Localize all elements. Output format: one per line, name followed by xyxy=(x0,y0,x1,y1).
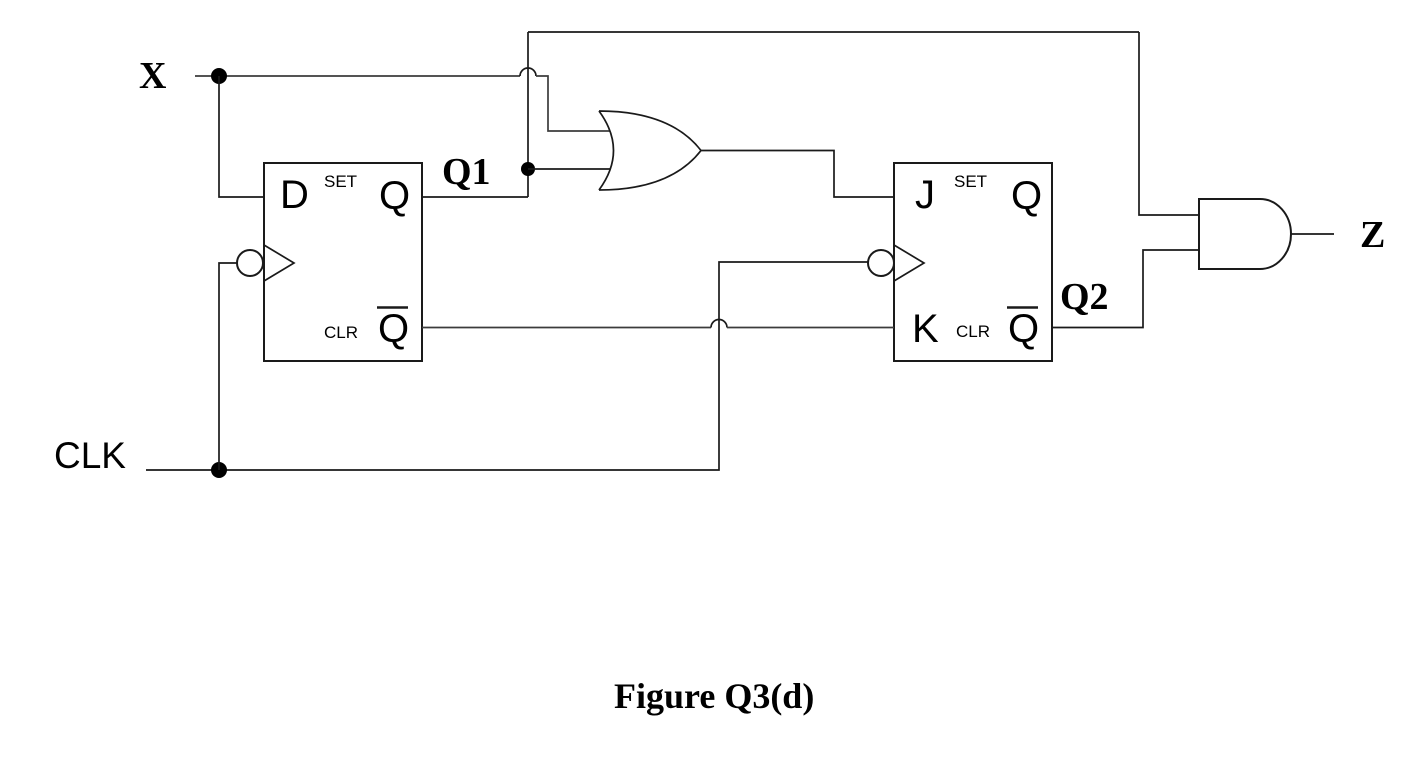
svg-text:Figure Q3(d): Figure Q3(d) xyxy=(614,676,814,716)
clock edge triangle (U1) xyxy=(264,245,294,281)
wire: Q1 to OR gate bottom input xyxy=(528,168,610,170)
svg-text:Q1: Q1 xyxy=(442,151,491,193)
junction node X xyxy=(211,68,227,84)
svg-text:SET: SET xyxy=(954,172,987,191)
svg-text:Z: Z xyxy=(1360,214,1385,256)
svg-text:Q: Q xyxy=(1008,307,1039,351)
wire: OR output to J input xyxy=(701,151,894,198)
svg-text:Q: Q xyxy=(1011,174,1042,218)
pin label Q-bar (U1) xyxy=(377,307,409,351)
wire: X to OR gate top input xyxy=(536,76,610,131)
junction node CLK xyxy=(211,462,227,478)
AND gate G2 xyxy=(1199,199,1291,269)
wire: CLK up to U1 clock xyxy=(219,263,237,470)
clock bubble (U2) xyxy=(868,250,894,276)
wire: X down to D input xyxy=(219,76,264,197)
wire: X input horizontal xyxy=(195,75,520,77)
svg-text:Q: Q xyxy=(378,307,409,351)
svg-text:CLK: CLK xyxy=(54,435,126,476)
wire hop over CLK vertical xyxy=(711,320,727,328)
wire: D Q-bar to K input (left part) xyxy=(422,327,711,329)
svg-text:CLR: CLR xyxy=(324,323,358,342)
clock bubble (U1) xyxy=(237,250,263,276)
wire: Q2-bar output to AND bottom input xyxy=(1052,250,1199,328)
JK flip-flop U2 box xyxy=(894,163,1052,361)
wire: top rail down to AND input xyxy=(1139,32,1199,215)
wire: Q1 output to feedback vertical xyxy=(422,196,528,198)
svg-text:CLR: CLR xyxy=(956,322,990,341)
svg-text:Q: Q xyxy=(379,174,410,218)
svg-text:J: J xyxy=(915,173,935,217)
wire: top rail Q1 feedback xyxy=(528,31,1139,33)
junction node Q1 xyxy=(521,162,535,176)
wire: Q1 feedback vertical up xyxy=(527,32,529,197)
wire: hop to K input xyxy=(727,327,894,329)
D flip-flop U1 box xyxy=(264,163,422,361)
wire hop over Q1 feedback line xyxy=(520,68,536,76)
pin label Q-bar (U2) xyxy=(1007,307,1039,351)
svg-text:X: X xyxy=(139,55,166,97)
clock edge triangle (U2) xyxy=(894,245,924,281)
svg-text:SET: SET xyxy=(324,172,357,191)
svg-text:D: D xyxy=(280,173,309,217)
wire: AND output xyxy=(1291,233,1334,235)
wire: CLK horizontal to U2 clock xyxy=(146,262,868,470)
svg-text:K: K xyxy=(912,307,939,351)
OR gate G1 xyxy=(599,111,701,190)
svg-text:Q2: Q2 xyxy=(1060,276,1109,318)
